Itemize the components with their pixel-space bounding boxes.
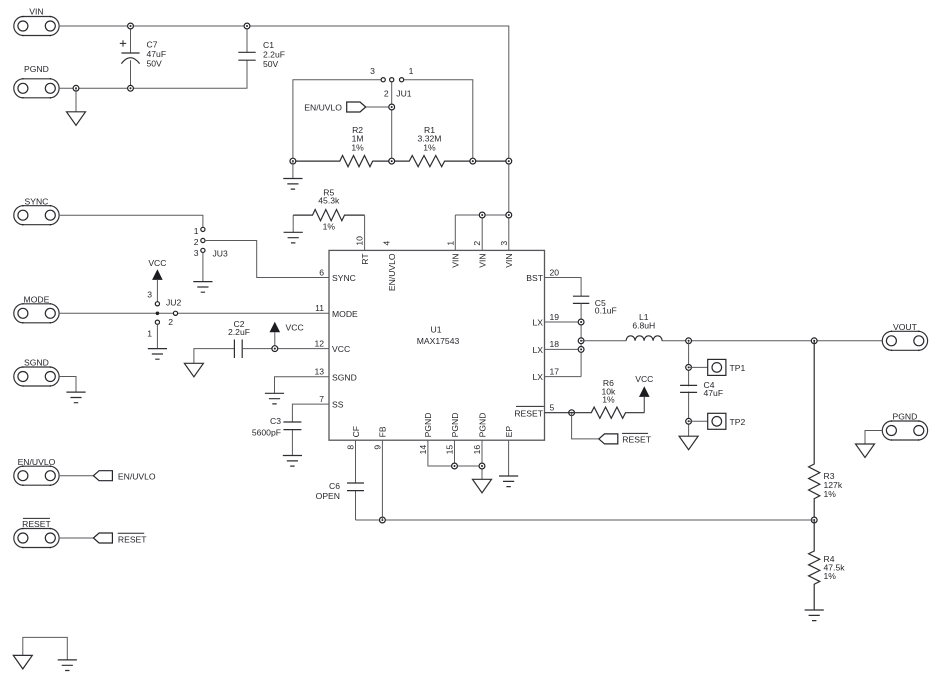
label U1 part number MAX17543 [417, 336, 460, 346]
wire VIN pin1 stub [454, 215, 456, 250]
svg-text:VOUT: VOUT [893, 322, 918, 332]
label R5 value [318, 187, 340, 205]
wire JU2 pin1 to ground [156, 324, 158, 348]
svg-text:SGND: SGND [24, 358, 49, 368]
label R1 value [418, 125, 442, 152]
label R2 value [351, 125, 364, 152]
pin name RT (U1 top) [360, 253, 370, 265]
svg-text:JU3: JU3 [213, 249, 229, 259]
wire SS pin 7 to C3 [292, 404, 329, 422]
wire VIN pin2 stub [481, 215, 483, 250]
svg-text:1: 1 [147, 329, 152, 339]
pin number 5 (U1 right) [550, 403, 555, 413]
pin number 10 (U1 top) [355, 236, 365, 246]
capacitor C4 47uF (output) [679, 385, 698, 392]
wire R5 left to ground [292, 215, 294, 232]
junction VOUT node / R3 divider [811, 338, 817, 344]
label C2 value [228, 319, 250, 337]
junction RESET pin5 node [569, 410, 575, 416]
svg-text:VCC: VCC [332, 344, 350, 354]
svg-text:5: 5 [550, 403, 555, 413]
svg-text:1%: 1% [824, 571, 837, 581]
pin number 16 (U1 bottom) [472, 445, 482, 455]
power VCC arrow at pin 12 [270, 322, 304, 346]
junction VIN tie / pin2 [479, 212, 485, 218]
junction LX output / C4 branch [686, 338, 692, 344]
svg-text:6: 6 [319, 267, 324, 277]
ground triangle at PGND2 [856, 444, 875, 458]
svg-text:VCC: VCC [148, 258, 166, 268]
label JU2 pin 2 [168, 317, 173, 327]
svg-text:TP2: TP2 [730, 417, 746, 427]
junction LX bus / pin19 [578, 319, 584, 325]
net flag EN/UVLO (input tag) [347, 102, 366, 112]
pin name PGND (U1 bottom) [450, 413, 460, 438]
label C5 value [595, 298, 617, 316]
net flag RESET (output tag) [599, 434, 618, 444]
wire LX pin 17 stub [545, 376, 582, 378]
svg-text:50V: 50V [147, 59, 163, 69]
capacitor C5 0.1uF (bootstrap) [573, 296, 589, 303]
svg-text:RESET: RESET [622, 435, 651, 445]
net flag RESET (connector tag) [93, 533, 112, 543]
label U1 refdes [431, 325, 442, 335]
wire JU1 pin3 to EN/UVLO divider left node [293, 80, 381, 161]
svg-text:0.1uF: 0.1uF [595, 306, 617, 316]
junction R1 right / JU1 pin1 drop [470, 158, 476, 164]
wire VIN rail from VIN connector to VIN vertical feed [59, 26, 509, 250]
pin name CF (U1 bottom) [351, 426, 361, 437]
wire LX pin 18 stub [545, 348, 582, 350]
junction VIN rail / C7 top [128, 23, 134, 29]
connector J-VOUT (output turret) [882, 322, 927, 351]
wire PGND pin16 stub [481, 440, 483, 479]
label R3 value [824, 471, 843, 499]
wire JU3 pin2 to SYNC pin 6 [205, 241, 329, 278]
junction EN/UVLO flag / JU1 vertical [389, 104, 395, 110]
wire SGND pin 13 to ground [275, 377, 330, 394]
ground triangle below C4 [679, 436, 698, 450]
pin number 11 (U1 left) [315, 303, 324, 313]
wire SGND connector to ground [59, 377, 76, 393]
svg-text:VIN: VIN [504, 253, 514, 267]
wire SYNC connector to JU3 pin1 [59, 215, 203, 227]
power VCC arrow above JU2 [148, 258, 166, 302]
connector J-SYNC (sync input turret) [14, 196, 59, 225]
wire R5 right to RT pin 10 [364, 215, 366, 250]
pin name SGND (U1 left) [332, 372, 357, 382]
svg-text:PGND: PGND [477, 413, 487, 438]
test point TP1 [689, 359, 726, 375]
pin name VIN (U1 top) [478, 253, 488, 267]
svg-text:SYNC: SYNC [25, 196, 49, 206]
svg-text:PGND: PGND [450, 413, 460, 438]
wire RESET node to flag [572, 413, 599, 439]
svg-text:RESET: RESET [118, 535, 147, 545]
svg-text:LX: LX [532, 318, 543, 328]
pin name FB (U1 bottom) [378, 426, 388, 437]
svg-text:C7: C7 [147, 40, 158, 50]
label C6 value [316, 481, 341, 501]
svg-text:2.2uF: 2.2uF [263, 50, 285, 60]
ground (earth) below SGND pin [265, 393, 284, 404]
junction VIN rail / C1 top [244, 23, 250, 29]
ground (earth) below R4 [805, 610, 824, 621]
label R4 value [824, 554, 846, 581]
pin name PGND (U1 bottom) [423, 413, 433, 438]
resistor R6 10k 1% (RESET pullup) [545, 407, 645, 418]
junction PGND tie / pin15 [452, 463, 458, 469]
pin name LX (U1 right) [532, 372, 543, 382]
svg-text:JU1: JU1 [396, 89, 412, 99]
wire LX pin 19 stub [545, 321, 582, 323]
capacitor C6 OPEN (feedforward) [347, 440, 364, 520]
svg-text:2: 2 [472, 241, 482, 246]
svg-text:MAX17543: MAX17543 [417, 336, 460, 346]
svg-text:VIN: VIN [29, 7, 43, 17]
wire R6 right to VCC arrow [643, 397, 645, 413]
resistor R3 127k 1% [809, 341, 820, 520]
svg-text:1: 1 [194, 226, 199, 236]
label TP1 [730, 363, 746, 373]
connector J-MODE (mode select turret) [14, 295, 59, 324]
svg-text:1%: 1% [602, 395, 615, 405]
pin name PGND (U1 bottom) [477, 413, 487, 438]
svg-text:10: 10 [355, 236, 365, 246]
label RESET net name at connector [118, 533, 148, 544]
svg-text:VCC: VCC [286, 323, 304, 333]
label R6 value [601, 378, 616, 405]
svg-text:CF: CF [351, 426, 361, 437]
svg-text:14: 14 [418, 445, 428, 455]
ground (earth) below R5 [284, 232, 303, 243]
jumper JU2 pin 1 [155, 320, 159, 324]
svg-text:8: 8 [346, 445, 356, 450]
svg-text:20: 20 [550, 267, 560, 277]
junction R1 net / VIN feed [506, 158, 512, 164]
svg-text:1: 1 [409, 66, 414, 76]
svg-text:6.8uH: 6.8uH [632, 320, 655, 330]
pin name EN/UVLO (U1 top) [387, 253, 397, 291]
label C3 value [252, 416, 281, 437]
svg-text:PGND: PGND [24, 64, 49, 74]
ground (power) triangle below PGND pins [473, 479, 492, 493]
svg-text:EN/UVLO: EN/UVLO [387, 253, 397, 291]
svg-text:2: 2 [168, 317, 173, 327]
resistor R2 1M 1% [293, 156, 392, 167]
svg-text:3: 3 [147, 290, 152, 300]
pin name SYNC (U1 left) [332, 273, 356, 283]
svg-text:SYNC: SYNC [332, 273, 356, 283]
svg-text:SGND: SGND [332, 372, 357, 382]
svg-text:JU2: JU2 [166, 298, 182, 308]
label C7 value [147, 40, 167, 69]
svg-text:1%: 1% [351, 142, 364, 152]
pin number 18 (U1 right) [550, 339, 560, 349]
pin number 1 (U1 top) [445, 241, 455, 246]
wire FB pin 9 drop [381, 440, 383, 520]
pin name RESET (U1 right, active low) [514, 406, 543, 418]
svg-text:47uF: 47uF [704, 388, 724, 398]
svg-text:FB: FB [378, 426, 388, 437]
svg-text:19: 19 [550, 312, 560, 322]
junction VIN tie / VIN feed [506, 212, 512, 218]
net flag EN/UVLO (connector tag) [93, 471, 112, 481]
test point TP2 [689, 413, 726, 429]
wire divider left node to ground [292, 161, 294, 178]
junction FB node R3-R4 [811, 517, 817, 523]
svg-text:16: 16 [472, 445, 482, 455]
jumper JU1 pins [381, 78, 404, 82]
wire EN/UVLO flag to JU1 pin2 net [366, 106, 392, 108]
wire FB feedback line [356, 519, 815, 521]
svg-text:C3: C3 [270, 416, 281, 426]
junction C4 bottom / TP2 [686, 418, 692, 424]
wire JU3 pin3 to ground [202, 253, 204, 282]
pin number 8 (U1 bottom) [346, 445, 356, 450]
ground (power) triangle at tie [13, 655, 32, 669]
svg-text:5600pF: 5600pF [252, 428, 281, 438]
wire EN/UVLO connector to flag [59, 475, 94, 477]
svg-text:BST: BST [526, 273, 543, 283]
ground (earth) at tie [58, 660, 77, 671]
junction LX bus / LX output [578, 338, 584, 344]
junction EN/UVLO node R2-R1 [389, 158, 395, 164]
pin number 19 (U1 right) [550, 312, 560, 322]
svg-text:OPEN: OPEN [316, 491, 340, 501]
junction divider left node / R2 [290, 158, 296, 164]
svg-text:13: 13 [314, 367, 324, 377]
svg-text:EN/UVLO: EN/UVLO [118, 472, 156, 482]
label RESET net name (active low) [622, 433, 652, 444]
svg-text:3: 3 [370, 66, 375, 76]
pin number 12 (U1 left) [314, 338, 324, 348]
ground triangle below C2 left [184, 363, 203, 377]
svg-text:2: 2 [384, 89, 389, 99]
connector J-VIN (VIN input turret) [14, 7, 59, 37]
svg-text:3: 3 [194, 248, 199, 258]
svg-text:2.2uF: 2.2uF [228, 327, 250, 337]
wire EP pad to ground [508, 440, 510, 476]
svg-text:PGND: PGND [423, 413, 433, 438]
pin number 9 (U1 bottom) [372, 445, 382, 450]
label JU3 pin 3 [194, 248, 199, 258]
capacitor C3 5600pF (soft start) [283, 422, 301, 456]
wire LX bus vertical [580, 303, 582, 376]
label JU2 refdes [166, 298, 182, 308]
svg-text:LX: LX [532, 372, 543, 382]
connector J-EN/UVLO (enable turret) [14, 457, 59, 486]
svg-text:MODE: MODE [24, 295, 50, 305]
svg-text:C1: C1 [263, 40, 274, 50]
connector J-RESET (reset turret) [14, 518, 59, 548]
svg-text:9: 9 [372, 445, 382, 450]
svg-text:2: 2 [194, 237, 199, 247]
jumper JU2 center tie dot [156, 312, 160, 316]
jumper JU3 pins [201, 227, 205, 252]
junction C4 top / TP1 [686, 365, 692, 371]
pin number 6 (U1 left) [319, 267, 324, 277]
svg-text:VCC: VCC [635, 374, 653, 384]
pin number 4 (U1 top) [382, 241, 392, 246]
svg-text:EN/UVLO: EN/UVLO [304, 103, 342, 113]
svg-text:3: 3 [499, 241, 509, 246]
svg-text:C6: C6 [329, 481, 340, 491]
connector J-SGND (signal ground turret) [14, 358, 59, 387]
pin name LX (U1 right) [532, 345, 543, 355]
pin name VCC (U1 left) [332, 344, 350, 354]
svg-text:RESET: RESET [514, 408, 543, 418]
svg-text:1%: 1% [824, 489, 837, 499]
ground (earth) below EP [499, 476, 518, 487]
junction PGND tie / pin16 [479, 463, 485, 469]
label JU1 pin 1 [409, 66, 414, 76]
junction FB pin drop / feedback line [380, 517, 386, 523]
pin number 13 (U1 left) [314, 367, 324, 377]
wire BST pin 20 to C5 [545, 278, 582, 297]
svg-text:7: 7 [319, 394, 324, 404]
ground (earth) below JU3 [193, 282, 212, 293]
wire PGND rail from PGND connector to C1 bottom [59, 60, 247, 88]
label JU3 pin 2 [194, 237, 199, 247]
pin number 2 (U1 top) [472, 241, 482, 246]
resistor R4 47.5k 1% [809, 520, 820, 610]
ground (earth) below R2 left node [283, 179, 302, 190]
wire PGND pin15 stub [454, 440, 456, 466]
label L1 value [632, 312, 655, 331]
ground (earth) below C3 [283, 456, 302, 467]
connector J-PGND2 (output ground turret) [882, 412, 927, 441]
svg-text:50V: 50V [263, 59, 279, 69]
capacitor C2 2.2uF (VCC bypass) [234, 340, 242, 359]
op-amp U1 MAX17543 body (IC outline) [329, 250, 545, 440]
junction PGND rail / C7 bottom [128, 85, 134, 91]
wire PGND pins 14-15-16 tie [428, 440, 482, 466]
svg-text:U1: U1 [431, 325, 442, 335]
ground (earth) below SGND connector [66, 392, 85, 403]
svg-text:11: 11 [315, 303, 324, 313]
label EN/UVLO net name at connector [118, 472, 156, 482]
wire C2 left to bypass ground [194, 349, 235, 364]
svg-text:1%: 1% [323, 222, 336, 232]
capacitor C7 47uF 50V (polarized) [120, 26, 140, 88]
svg-text:TP1: TP1 [730, 363, 746, 373]
wire RESET connector to flag [59, 537, 94, 539]
label JU2 pin 1 [147, 329, 152, 339]
jumper JU2 pin 2 [173, 311, 177, 315]
wire PGND2 connector to ground [865, 431, 882, 445]
label EN/UVLO net name [304, 103, 342, 113]
svg-text:SS: SS [332, 400, 344, 410]
svg-text:VIN: VIN [478, 253, 488, 267]
ground (earth) below JU2 [148, 349, 167, 360]
svg-text:1: 1 [445, 241, 455, 246]
wire MODE connector to MODE pin 11 [59, 312, 329, 314]
wire C2 right to VCC pin 12 [242, 348, 329, 350]
svg-text:15: 15 [445, 445, 455, 455]
pin name VIN (U1 top) [504, 253, 514, 267]
pin number 3 (U1 top) [499, 241, 509, 246]
wire JU1 pin1 to divider right node [404, 80, 473, 161]
junction LX bus / pin18 [578, 347, 584, 353]
svg-text:18: 18 [550, 339, 560, 349]
label R5 tolerance [323, 222, 336, 232]
wire C4 branch down [688, 341, 690, 436]
svg-text:VIN: VIN [451, 253, 461, 267]
svg-text:45.3k: 45.3k [318, 196, 340, 206]
svg-text:RESET: RESET [22, 519, 51, 529]
pin name BST (U1 right) [526, 273, 543, 283]
svg-text:EN/UVLO: EN/UVLO [18, 457, 56, 467]
svg-text:4: 4 [382, 241, 392, 246]
pin name SS (U1 left) [332, 400, 344, 410]
label C1 value [263, 40, 285, 69]
pin name EP (U1 bottom) [504, 426, 514, 438]
svg-text:RT: RT [360, 253, 370, 265]
label TP2 [730, 417, 746, 427]
pin number 7 (U1 left) [319, 394, 324, 404]
wire VIN pins 1-2-3 tie [455, 214, 509, 216]
label JU1 refdes [396, 89, 412, 99]
svg-text:12: 12 [314, 338, 324, 348]
label JU1 pin 3 [370, 66, 375, 76]
svg-text:MODE: MODE [332, 309, 358, 319]
wire power-ground to earth-ground tie [23, 637, 68, 660]
label JU3 refdes [213, 249, 229, 259]
pin number 15 (U1 bottom) [445, 445, 455, 455]
inductor L1 6.8uH [581, 336, 882, 341]
label C4 value [704, 380, 724, 398]
ground (power) triangle below PGND rail [67, 112, 86, 126]
pin name LX (U1 right) [532, 318, 543, 328]
pin number 20 (U1 right) [550, 267, 560, 277]
connector J-PGND (input ground turret) [14, 64, 59, 99]
label JU2 pin 3 [147, 290, 152, 300]
svg-text:PGND: PGND [893, 412, 918, 422]
power VCC arrow at R6 [635, 374, 653, 413]
svg-text:1%: 1% [423, 142, 436, 152]
pin number 14 (U1 bottom) [418, 445, 428, 455]
jumper JU2 pin 3 [155, 302, 159, 306]
pin number 17 (U1 right) [550, 366, 560, 376]
resistor R5 45.3k 1% [293, 210, 364, 221]
wire PGND drop to ground [75, 88, 77, 112]
capacitor C1 2.2uF 50V [238, 26, 255, 60]
pin name MODE (U1 left) [332, 309, 358, 319]
svg-text:LX: LX [532, 345, 543, 355]
junction PGND rail / ground drop [73, 85, 79, 91]
pin name VIN (U1 top) [451, 253, 461, 267]
label JU1 pin 2 [384, 89, 389, 99]
svg-text:17: 17 [550, 366, 560, 376]
junction VCC arrow / pin12 wire [272, 346, 278, 352]
label JU3 pin 1 [194, 226, 199, 236]
wire JU1 pin2 down to EN/UVLO node [391, 82, 393, 161]
svg-text:EP: EP [504, 426, 514, 438]
resistor R1 3.32M 1% [392, 156, 509, 167]
